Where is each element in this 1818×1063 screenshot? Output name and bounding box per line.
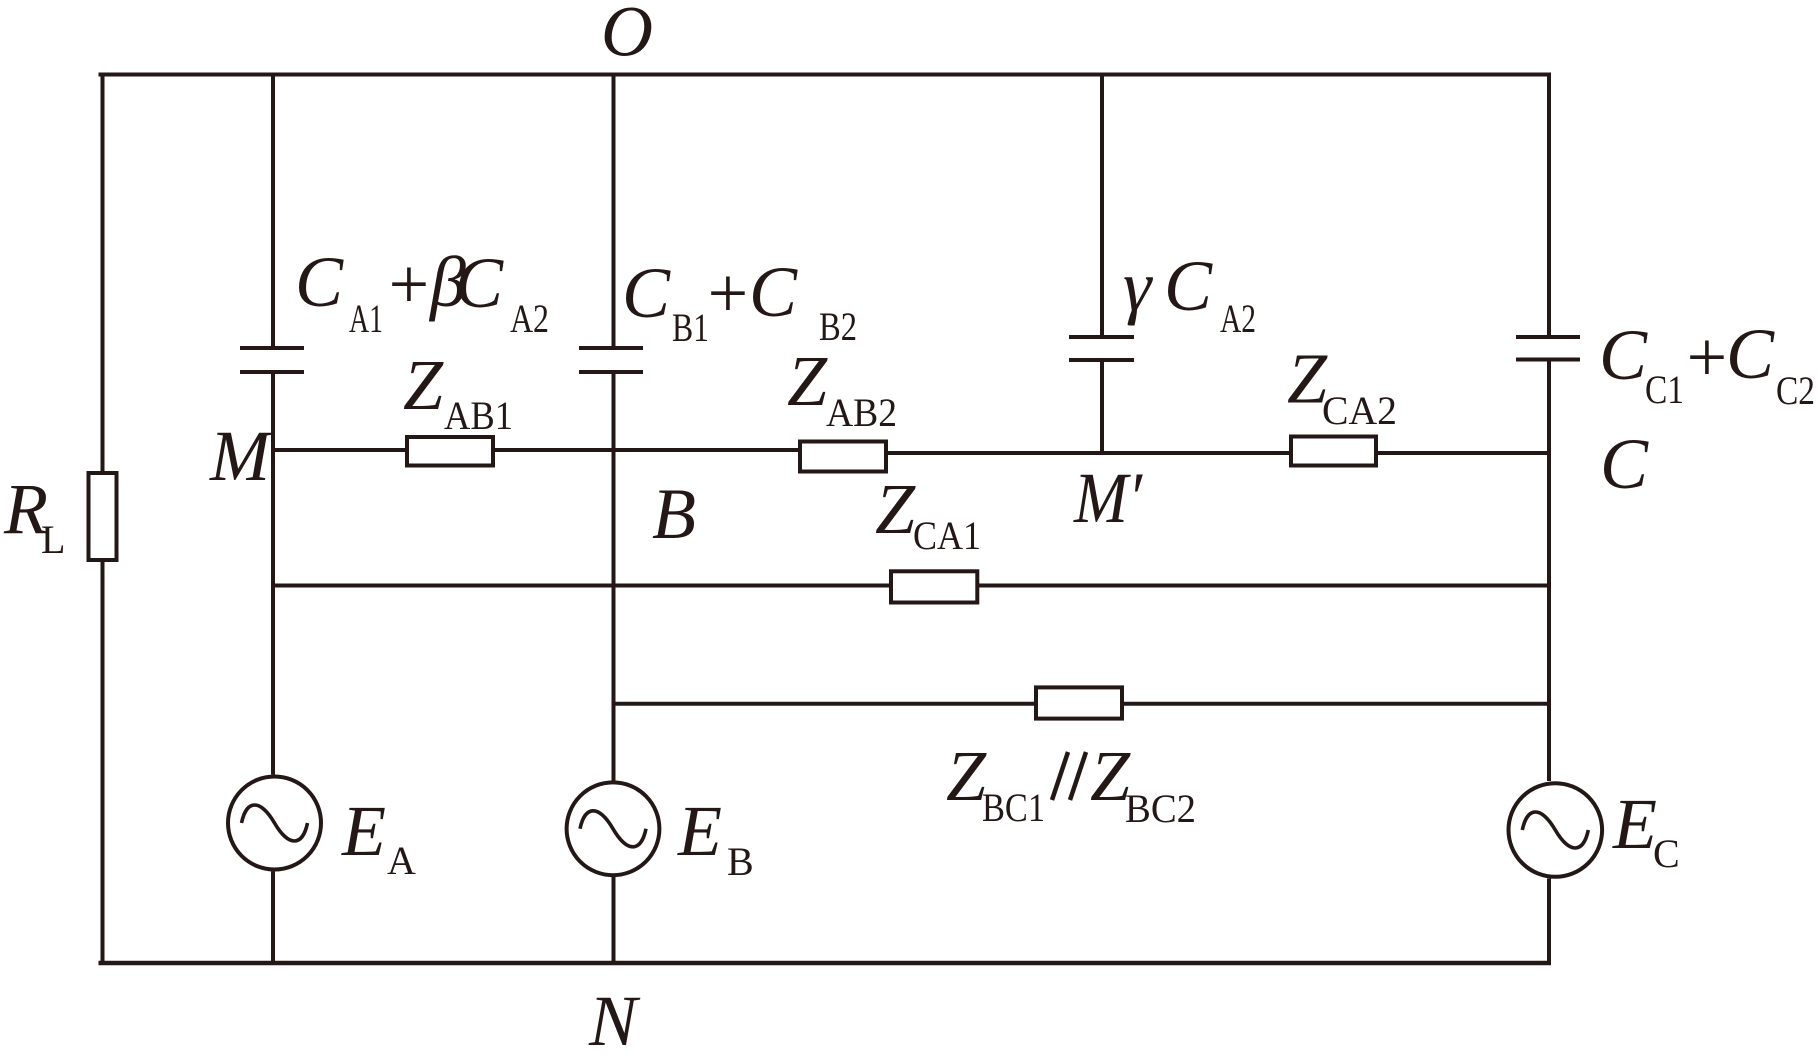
- svg-text:C: C: [1164, 246, 1213, 326]
- svg-text:B2: B2: [819, 304, 857, 349]
- svg-text:Z: Z: [946, 736, 987, 816]
- svg-text:A: A: [387, 838, 416, 883]
- svg-text:C: C: [1600, 424, 1649, 504]
- svg-text:C: C: [1599, 315, 1648, 395]
- svg-text:C: C: [749, 252, 798, 332]
- svg-text:L: L: [41, 517, 65, 562]
- svg-text:B: B: [652, 474, 696, 554]
- svg-text:BC2: BC2: [1125, 786, 1196, 831]
- svg-text:B1: B1: [672, 305, 709, 350]
- svg-text:A2: A2: [1220, 296, 1256, 341]
- svg-text:B: B: [727, 839, 754, 884]
- svg-text:E: E: [341, 791, 386, 871]
- svg-text:C: C: [1653, 831, 1680, 876]
- svg-text:Z: Z: [787, 341, 828, 421]
- svg-text:CA1: CA1: [913, 513, 981, 558]
- svg-text:γ: γ: [1123, 246, 1153, 326]
- svg-text:+: +: [1682, 317, 1731, 397]
- svg-text:+: +: [703, 253, 752, 333]
- svg-text:N: N: [588, 981, 641, 1061]
- svg-text:Z: Z: [875, 469, 916, 549]
- svg-text:C: C: [622, 253, 671, 333]
- svg-text:BC1: BC1: [982, 785, 1045, 830]
- svg-text:C2: C2: [1776, 368, 1815, 413]
- svg-text:C: C: [295, 242, 344, 322]
- svg-text:Z: Z: [403, 345, 444, 425]
- svg-text:M: M: [209, 416, 274, 496]
- svg-text:AB1: AB1: [444, 393, 513, 438]
- svg-text:CA2: CA2: [1322, 388, 1397, 433]
- svg-text:C: C: [1726, 314, 1775, 394]
- svg-text:E: E: [677, 791, 722, 871]
- svg-text:+: +: [384, 244, 433, 324]
- svg-text:A2: A2: [510, 296, 549, 341]
- svg-text:O: O: [601, 0, 653, 72]
- svg-text:E: E: [1612, 784, 1657, 864]
- svg-text:AB2: AB2: [826, 390, 897, 435]
- svg-text:C: C: [455, 243, 504, 323]
- svg-text:M′: M′: [1073, 458, 1143, 538]
- svg-text:A1: A1: [349, 296, 383, 341]
- svg-text:C1: C1: [1645, 367, 1684, 412]
